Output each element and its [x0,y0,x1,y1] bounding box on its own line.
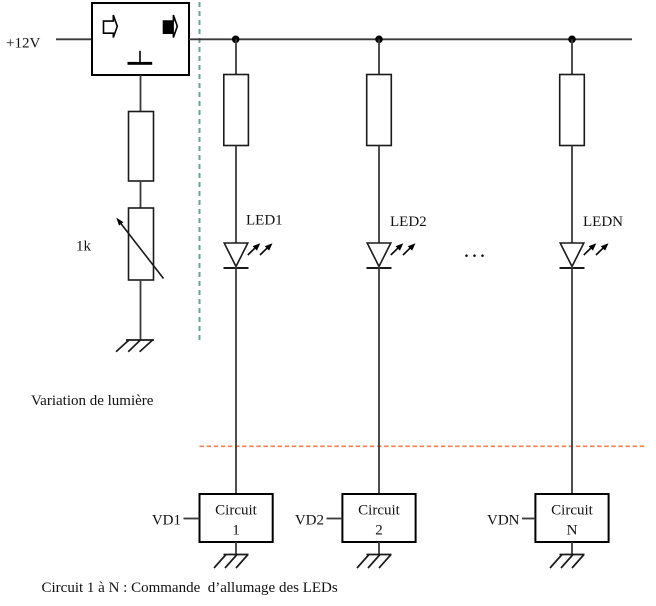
svg-text:VDN: VDN [487,513,520,529]
label Variation de lumière [31,393,154,409]
U1 filled arrow icon [164,15,178,38]
wire VD1 to Circuit 1 [184,518,200,520]
svg-text:Variation de lumière: Variation de lumière [31,393,154,409]
U1 outline arrow icon [104,15,118,38]
ground (Circuit 2) [357,555,392,569]
svg-text:N: N [567,523,578,539]
wire LED2 to Circuit 2 [378,267,380,494]
Circuit 2 block [342,494,415,542]
svg-text:LED1: LED1 [246,213,283,229]
separator dashed line (zone boundary, vertical teal) [199,2,201,344]
svg-text:VD2: VD2 [295,513,324,529]
svg-text:2: 2 [375,523,383,539]
svg-text:LEDN: LEDN [583,214,623,230]
LED1 symbol [224,243,273,268]
wire resistor to LED2 [378,146,380,244]
separator dashed line (zone boundary, horizontal orange) [200,445,646,447]
U1 reference plate icon [128,51,153,65]
svg-text:Circuit: Circuit [358,503,400,519]
wire LEDN to Circuit N [571,267,573,494]
svg-text:+12V: +12V [6,36,40,52]
wire resistor to LED1 [235,146,237,244]
svg-text:Circuit: Circuit [215,503,257,519]
potentiometer P1 adjustment arrow [116,218,163,279]
svg-text:Circuit 1 à N : Commande d’al: Circuit 1 à N : Commande d’allumage des … [42,580,338,596]
wire +12V to dimmer block [56,38,92,40]
wire VDN to Circuit N [522,518,535,520]
wire Circuit N to ground [571,542,573,555]
ground (Circuit N) [550,555,585,569]
wire rail to resistor branch 1 [235,39,237,74]
wire Circuit 1 to ground [235,542,237,555]
LED2 symbol [367,243,416,268]
resistor branch 1 [224,75,249,146]
wire LED1 to Circuit 1 [235,267,237,494]
wire rail to resistor branch N [571,39,573,74]
junction node branch 2 [375,36,383,44]
label VDN [487,513,520,529]
ground (left branch) [116,340,154,352]
LEDN symbol [560,243,609,268]
junction node branch 1 [232,36,240,44]
label LED2 [390,214,427,230]
junction node branch N [568,36,576,44]
wire resistor to LEDN [571,146,573,244]
resistor branch N [560,75,585,146]
svg-text:1: 1 [232,523,240,539]
supply rail wire +12V [189,38,632,40]
wire rail to resistor branch 2 [378,39,380,74]
resistor R1 [129,112,154,182]
value label 1k [76,239,92,255]
label LEDN [583,214,623,230]
ellipsis between branches [465,244,485,261]
svg-text:1k: 1k [76,239,92,255]
label VD1 [152,513,181,529]
potentiometer P1 1k (body) [129,208,154,280]
svg-text:VD1: VD1 [152,513,181,529]
ground (Circuit 1) [214,555,249,569]
svg-text:Circuit: Circuit [551,503,593,519]
wire R1 to potentiometer [140,181,142,208]
label VD2 [295,513,324,529]
wire P1 to ground [140,280,142,340]
wire VD2 to Circuit 2 [327,518,343,520]
node +12V label [6,36,40,52]
label LED1 [246,213,283,229]
Circuit 1 block [200,494,273,542]
Circuit N block [535,494,608,542]
wire U1 to resistor R1 [140,75,142,112]
svg-text:LED2: LED2 [390,214,427,230]
caption Circuit 1 à N [42,580,338,596]
dimmer block U1 (variateur) [92,3,189,75]
resistor branch 2 [367,75,392,146]
wire Circuit 2 to ground [378,542,380,555]
svg-text:. . .: . . . [465,244,485,261]
